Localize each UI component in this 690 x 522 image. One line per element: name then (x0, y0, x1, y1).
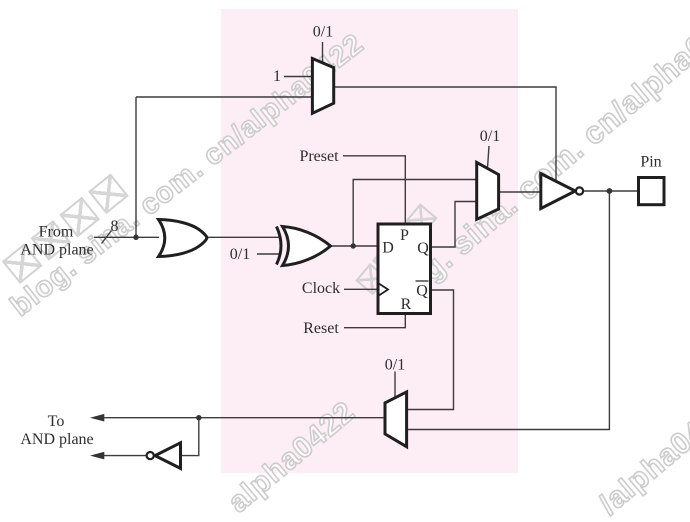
buffer bubble (576, 187, 583, 194)
svg-text:Pin: Pin (640, 154, 661, 171)
mux M1 (top, tri-state enable select) (312, 59, 333, 114)
pin square (639, 178, 665, 205)
svg-text:0/1: 0/1 (230, 246, 250, 263)
wire 0/1 to XOR lower input (257, 253, 281, 255)
svg-text:0/1: 0/1 (480, 128, 500, 145)
flip-flop pin label Q (417, 240, 429, 257)
XOR gate G2 input curve (277, 227, 282, 265)
arrowhead To AND plane (90, 414, 104, 422)
wire From AND plane input (94, 236, 159, 238)
svg-text:0/1: 0/1 (313, 24, 333, 41)
wire Clock (344, 288, 378, 290)
wire mux2 select (488, 146, 490, 168)
label 8 bus width (111, 218, 119, 235)
arrowhead inverter output (90, 452, 104, 460)
tri-state output buffer U2 (541, 174, 576, 209)
label Pin (640, 154, 661, 171)
svg-text:P: P (400, 227, 409, 244)
label To AND plane (20, 413, 93, 448)
Qbar overline (416, 280, 429, 282)
wire mux1 output to tri-state enable (334, 87, 556, 180)
label Clock (302, 280, 340, 297)
wire mux3 output to AND plane (100, 417, 385, 419)
svg-text:From: From (39, 224, 74, 241)
watermark band 2 text (376, 0, 690, 320)
wire Preset (343, 156, 405, 224)
wire input 1 to mux1 (284, 76, 312, 78)
watermark band 3 text fragment (222, 395, 362, 520)
wire junction down to inverter input (181, 418, 199, 456)
flip-flop pin label Qbar (416, 283, 428, 300)
wire feedback from XOR output up to mux2 input 1 (353, 180, 477, 247)
label Preset (299, 148, 339, 165)
label 1 (273, 68, 281, 85)
pink macrocell background region (221, 9, 518, 473)
OR gate G1 (159, 220, 208, 257)
wire vertical from mux1 input2 down to AND-plane input (135, 97, 137, 237)
watermark band 4 text fragment (593, 391, 690, 522)
XOR gate G2 body (283, 227, 331, 266)
wire mux2 output to tri-state buffer (499, 191, 542, 193)
label 0/1 mux1 (313, 24, 333, 41)
svg-text:R: R (401, 296, 412, 313)
flip-flop pin label D (382, 240, 394, 257)
svg-text:To: To (48, 413, 65, 430)
svg-text:1: 1 (273, 68, 281, 85)
clock wedge inside flip-flop (378, 283, 388, 296)
wire inverter output arrow (100, 455, 147, 457)
wire mux3 select (394, 372, 396, 399)
D flip-flop U1 (378, 224, 431, 314)
mux M2 (output select) (477, 162, 499, 219)
label 0/1 xor (230, 246, 250, 263)
watermark band 2 chinese blocks (354, 203, 443, 301)
wire pin feedback down to mux3 input 2 (407, 191, 609, 430)
svg-text:Reset: Reset (303, 320, 339, 337)
junction at AND-plane input (133, 235, 138, 240)
svg-text:D: D (382, 240, 394, 257)
junction at pin (607, 188, 613, 194)
svg-text:Q: Q (417, 240, 429, 257)
svg-text:Q: Q (416, 283, 428, 300)
wire Q output to mux2 input 2 (431, 202, 478, 248)
junction at XOR output (351, 243, 356, 248)
mux M3 (feedback select, mirrored) (385, 392, 407, 447)
svg-text:0/1: 0/1 (385, 357, 405, 374)
inverter U3 (155, 443, 181, 469)
junction at To-AND-plane (196, 415, 201, 420)
label 0/1 mux3 (385, 357, 405, 374)
flip-flop pin label R (401, 296, 412, 313)
label From AND plane (20, 224, 93, 259)
wire mux1 input 2 horizontal (136, 96, 312, 98)
wire Reset (344, 314, 405, 328)
wire mux1 select (322, 42, 324, 63)
wire buffer output to pin (583, 190, 638, 192)
wire XOR output to D input (330, 245, 378, 247)
watermark band 1 text (5, 28, 371, 324)
bus slash mark (102, 231, 112, 244)
svg-text:Clock: Clock (302, 280, 340, 297)
label 0/1 mux2 (480, 128, 500, 145)
inverter bubble (147, 452, 154, 459)
watermark band 1 chinese blocks (0, 171, 136, 292)
wire OR output to XOR input (206, 236, 280, 238)
svg-text:AND plane: AND plane (20, 431, 93, 448)
label Reset (303, 320, 339, 337)
wire Qbar output to mux3 input 1 (407, 290, 454, 410)
svg-text:AND plane: AND plane (20, 242, 93, 259)
svg-text:Preset: Preset (299, 148, 339, 165)
svg-text:8: 8 (111, 218, 119, 235)
flip-flop pin label P (400, 227, 409, 244)
